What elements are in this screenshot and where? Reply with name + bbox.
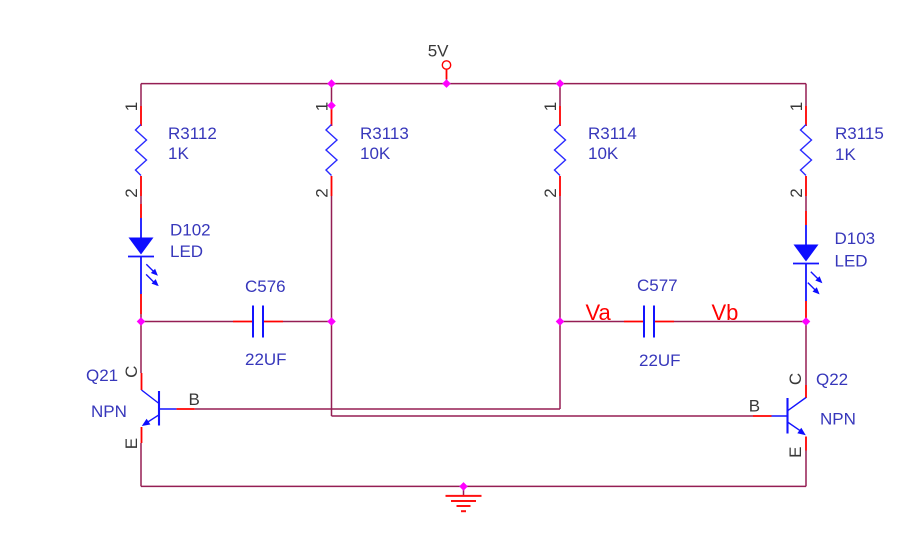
- svg-text:1K: 1K: [168, 144, 189, 163]
- svg-text:Va: Va: [586, 300, 612, 325]
- svg-text:1: 1: [541, 102, 560, 111]
- svg-text:R3112: R3112: [168, 124, 217, 143]
- svg-text:22UF: 22UF: [245, 350, 287, 369]
- svg-text:C576: C576: [245, 277, 286, 296]
- svg-text:22UF: 22UF: [639, 351, 681, 370]
- svg-text:R3114: R3114: [588, 124, 637, 143]
- svg-text:10K: 10K: [360, 144, 391, 163]
- svg-text:R3113: R3113: [360, 124, 409, 143]
- svg-text:E: E: [122, 438, 141, 449]
- svg-text:2: 2: [313, 188, 332, 197]
- svg-text:LED: LED: [170, 242, 203, 261]
- svg-text:LED: LED: [835, 251, 868, 270]
- svg-text:2: 2: [787, 188, 806, 197]
- svg-text:1: 1: [122, 102, 141, 111]
- svg-text:2: 2: [541, 188, 560, 197]
- svg-text:B: B: [749, 397, 760, 416]
- svg-text:D103: D103: [835, 229, 876, 248]
- svg-text:NPN: NPN: [91, 402, 127, 421]
- svg-text:NPN: NPN: [820, 410, 856, 429]
- svg-text:C: C: [122, 366, 141, 378]
- svg-text:5V: 5V: [428, 42, 449, 61]
- svg-text:R3115: R3115: [835, 124, 884, 143]
- svg-text:1: 1: [313, 102, 332, 111]
- svg-text:Q21: Q21: [86, 366, 118, 385]
- svg-text:E: E: [786, 447, 805, 458]
- svg-text:D102: D102: [170, 221, 211, 240]
- svg-text:1K: 1K: [835, 145, 856, 164]
- svg-text:Q22: Q22: [816, 370, 848, 389]
- svg-text:Vb: Vb: [712, 300, 739, 325]
- svg-text:1: 1: [787, 102, 806, 111]
- svg-text:2: 2: [122, 188, 141, 197]
- svg-text:B: B: [189, 390, 200, 409]
- svg-text:10K: 10K: [588, 144, 619, 163]
- svg-text:C577: C577: [637, 276, 678, 295]
- svg-text:C: C: [786, 373, 805, 385]
